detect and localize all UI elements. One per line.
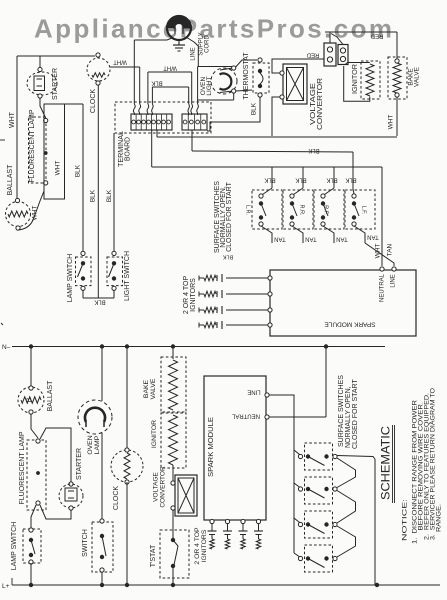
svg-text:NOTICE:: NOTICE: — [402, 499, 409, 541]
svg-text:LINE: LINE — [391, 274, 397, 287]
svg-text:CONVERTOR: CONVERTOR — [160, 466, 167, 508]
svg-text:BLK: BLK — [345, 176, 356, 182]
svg-text:CLOSED FOR START: CLOSED FOR START — [352, 379, 359, 449]
svg-text:SPARK MODULE: SPARK MODULE — [208, 417, 215, 477]
svg-text:BALLAST: BALLAST — [47, 380, 54, 411]
svg-text:BLK: BLK — [75, 164, 82, 177]
svg-text:OVEN: OVEN — [87, 435, 94, 454]
svg-text:WHT: WHT — [54, 161, 61, 176]
svg-text:R.F.: R.F. — [323, 205, 329, 215]
svg-text:BAKE: BAKE — [143, 379, 150, 398]
svg-text:CLOCK: CLOCK — [113, 486, 120, 510]
svg-text:VOLTAGE: VOLTAGE — [310, 83, 317, 125]
svg-text:TAN: TAN — [274, 235, 286, 241]
svg-text:TAN: TAN — [367, 233, 379, 239]
svg-text:VALVE: VALVE — [414, 66, 421, 87]
svg-text:CLOCK: CLOCK — [90, 89, 97, 113]
svg-text:WHT: WHT — [388, 115, 395, 130]
svg-text:R.R.: R.R. — [299, 205, 305, 216]
svg-text:TAN: TAN — [387, 243, 394, 256]
svg-text:BLK: BLK — [106, 189, 113, 202]
svg-text:L+: L+ — [2, 583, 10, 590]
svg-text:TAN: TAN — [336, 235, 348, 241]
svg-text:RED: RED — [306, 51, 319, 57]
svg-text:WHT: WHT — [9, 111, 16, 128]
svg-text:L.F.: L.F. — [361, 206, 367, 215]
svg-text:WHT: WHT — [32, 206, 39, 221]
svg-text:BLK: BLK — [151, 79, 162, 85]
svg-text:IGNITORS: IGNITORS — [190, 278, 197, 312]
svg-text:RED: RED — [370, 32, 383, 38]
svg-text:SPARK MODULE: SPARK MODULE — [324, 320, 376, 327]
svg-text:BLK: BLK — [222, 254, 233, 260]
svg-text:BALLAST: BALLAST — [7, 164, 14, 195]
svg-text:NORMALLY OPEN,: NORMALLY OPEN, — [345, 386, 352, 448]
svg-text:SCHEMATIC: SCHEMATIC — [379, 426, 393, 500]
svg-text:FLUORESCENT LAMP: FLUORESCENT LAMP — [19, 431, 26, 504]
svg-text:WHT: WHT — [113, 58, 127, 64]
svg-text:BLK: BLK — [90, 189, 97, 202]
svg-text:BLK: BLK — [264, 176, 275, 182]
svg-text:LAMP SWITCH: LAMP SWITCH — [67, 254, 74, 303]
svg-text:RANGE.: RANGE. — [436, 504, 443, 532]
svg-text:CLOSED FOR START: CLOSED FOR START — [226, 181, 233, 251]
svg-text:NEUTRAL: NEUTRAL — [231, 412, 260, 418]
svg-text:BLK: BLK — [94, 298, 105, 304]
svg-text:2 OR 4 TOP: 2 OR 4 TOP — [183, 276, 190, 315]
svg-text:LAMP SWITCH: LAMP SWITCH — [11, 522, 18, 571]
svg-text:BLK: BLK — [295, 176, 306, 182]
svg-text:LINE: LINE — [247, 388, 260, 394]
svg-text:IGNITOR: IGNITOR — [352, 64, 359, 94]
svg-text:B: B — [26, 397, 33, 402]
svg-text:IGNITOR: IGNITOR — [151, 420, 158, 448]
svg-text:LIGHT SWITCH: LIGHT SWITCH — [124, 251, 131, 301]
svg-text:BLK: BLK — [308, 147, 319, 153]
svg-text:LINE: LINE — [191, 47, 197, 60]
svg-text:VALVE: VALVE — [150, 378, 157, 399]
svg-text:STARTER: STARTER — [76, 448, 83, 480]
svg-text:VOLTAGE: VOLTAGE — [153, 471, 160, 501]
svg-text:NEUTRAL: NEUTRAL — [380, 273, 386, 302]
svg-text:WHT: WHT — [163, 64, 177, 70]
svg-text:BOARD: BOARD — [124, 137, 131, 161]
svg-text:IGNITORS: IGNITORS — [201, 529, 208, 562]
svg-text:TAN: TAN — [305, 235, 317, 241]
svg-text:CORD: CORD — [205, 35, 211, 53]
svg-text:SURFACE SWITCHES: SURFACE SWITCHES — [338, 375, 345, 447]
svg-text:FLUORESCENT LAMP: FLUORESCENT LAMP — [29, 109, 36, 182]
svg-text:THERMOSTAT: THERMOSTAT — [243, 52, 250, 100]
svg-text:SWITCH: SWITCH — [82, 529, 89, 557]
svg-text:BLK: BLK — [251, 102, 258, 115]
svg-text:STARTER: STARTER — [52, 68, 59, 100]
svg-text:LIGHT: LIGHT — [206, 76, 213, 95]
svg-text:CONVERTOR: CONVERTOR — [317, 78, 324, 130]
svg-text:N–: N– — [2, 344, 11, 351]
svg-text:T'STAT: T'STAT — [150, 544, 157, 567]
svg-text:BLK: BLK — [326, 176, 337, 182]
svg-text:2 OR 4 TOP: 2 OR 4 TOP — [194, 527, 201, 565]
svg-text:LAMP: LAMP — [94, 435, 101, 454]
svg-text:L.R.: L.R. — [245, 205, 251, 216]
